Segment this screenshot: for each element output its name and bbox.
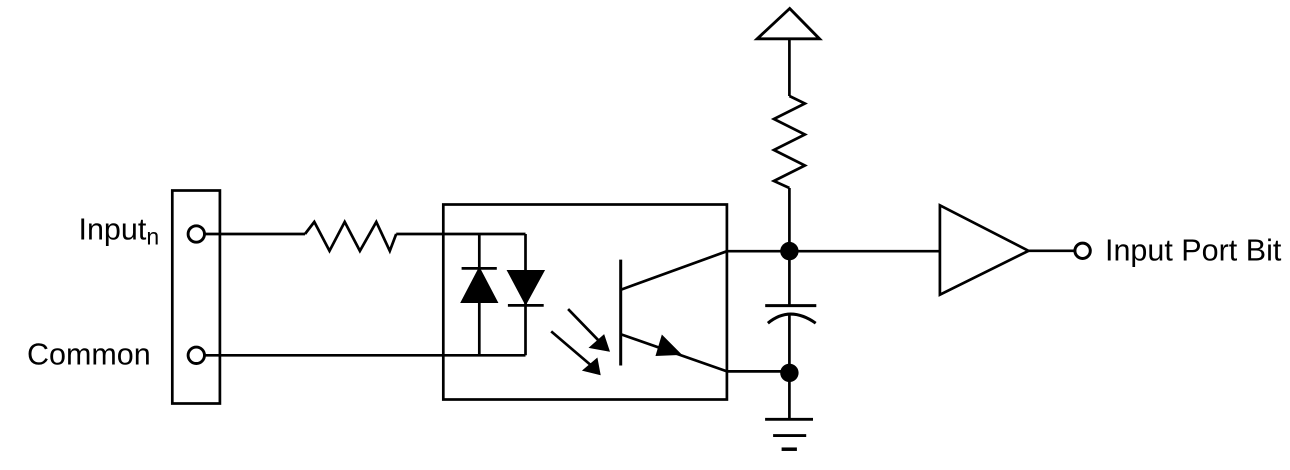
ground bar 2 [773, 434, 806, 437]
node B junction dot [780, 364, 798, 382]
wire: Input_n terminal to resistor R1 [205, 233, 305, 236]
wire: LED pair right branch [524, 234, 527, 355]
capacitor C1 top plate [765, 304, 816, 307]
phototransistor Q1 base bar [619, 260, 622, 366]
resistor R2 (pull-up) [774, 96, 805, 188]
wire: collector to buffer input [727, 250, 940, 253]
terminal pin Input_n [188, 226, 204, 242]
phototransistor Q1 collector lead [622, 251, 728, 289]
wire: emitter to node B [727, 370, 789, 373]
output pin circle [1075, 243, 1090, 258]
wire: Common terminal into optocoupler U1 [205, 354, 526, 357]
wire: node A down to capacitor C1 [788, 251, 791, 305]
optocoupler U1 body [443, 205, 727, 400]
light arrow 2 shaft [551, 331, 593, 367]
resistor R1 [305, 222, 396, 251]
ground bar 3 [782, 447, 797, 451]
wire: capacitor C1 to node B [788, 314, 791, 372]
wire: resistor R2 to supply [788, 39, 791, 96]
capacitor C1 bottom plate (curved) [768, 314, 816, 323]
terminal block J1 [172, 191, 220, 404]
LED D2 (down-pointing, filled) [509, 271, 543, 303]
wire: LED pair left branch [478, 234, 481, 355]
wire: resistor R1 to LED anode (into optocoupler U1) [396, 233, 525, 236]
node A junction dot [780, 242, 798, 260]
phototransistor Q1 emitter arrow [657, 337, 679, 355]
light arrow 1 shaft [568, 309, 601, 343]
LED D2 cathode bar [508, 304, 544, 307]
terminal pin Common [188, 347, 204, 363]
light arrow 2 head [585, 360, 599, 374]
svg-text:Common: Common [27, 337, 151, 371]
ground bar 1 [765, 418, 813, 421]
wire: buffer output [1029, 249, 1075, 252]
light arrow 1 head [592, 337, 609, 351]
svg-text:Input Port Bit: Input Port Bit [1105, 233, 1282, 267]
supply symbol (up triangle) [757, 9, 819, 39]
wire: node B to ground [788, 372, 791, 419]
LED D1 (up-pointing, filled) [462, 269, 496, 301]
LED D1 cathode bar [462, 267, 497, 270]
phototransistor Q1 emitter lead [622, 335, 728, 372]
wire: node A up to pull-up resistor R2 [788, 188, 791, 251]
buffer U2 [940, 205, 1029, 294]
